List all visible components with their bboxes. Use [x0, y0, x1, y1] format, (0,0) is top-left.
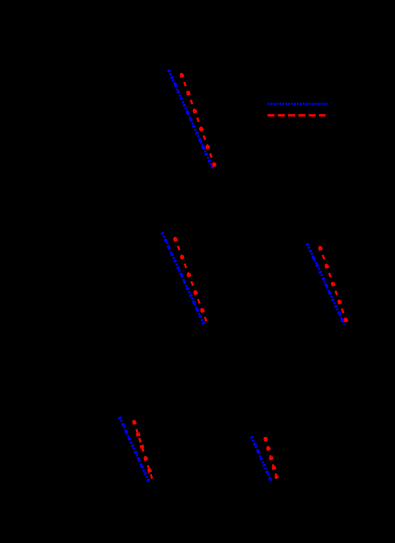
subplot 2 red dashed series	[175, 237, 207, 322]
subplot 3 blue dotted series	[307, 244, 345, 325]
subplot 1 blue dotted series	[169, 70, 213, 168]
subplot 4 red dashed series	[134, 420, 153, 480]
subplot 5 blue dotted series	[252, 437, 272, 482]
subplot 3 red dashed series	[320, 246, 348, 324]
subplot 5 red dashed series	[265, 437, 277, 479]
subplot 2 blue dotted series	[162, 233, 204, 325]
legend blue dotted swatch	[268, 103, 328, 105]
subplot 1 red dashed series	[181, 73, 215, 167]
legend red dashed swatch	[268, 114, 326, 116]
subplot 4 blue dotted series	[120, 417, 149, 481]
